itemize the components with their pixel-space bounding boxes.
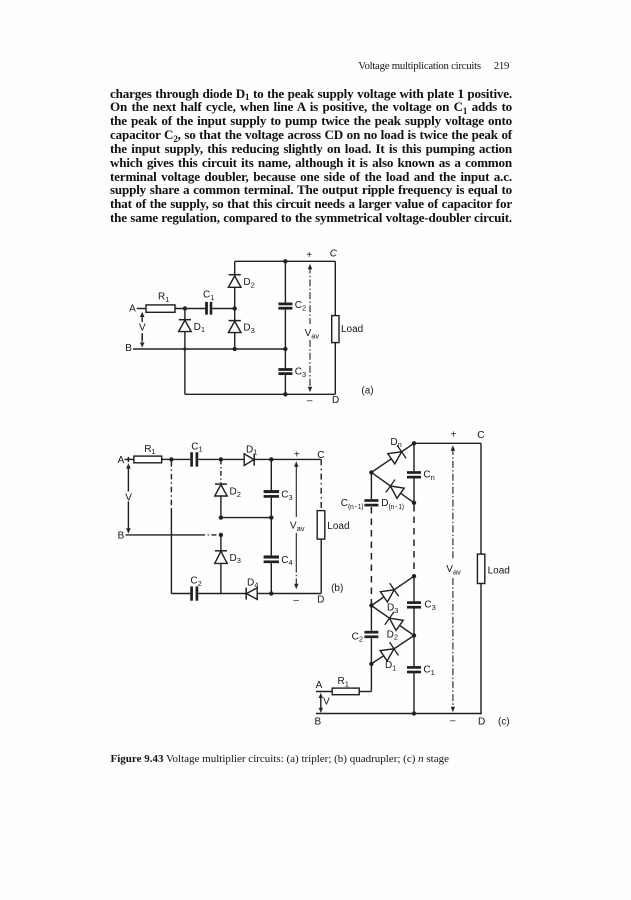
svg-text:–: – [307,395,313,406]
wire left column bottom (c) [370,664,372,692]
wire R1 to C1 (a) [175,308,205,310]
junction top rail / Cn column (c) [412,441,416,445]
svg-text:B: B [314,716,321,727]
wire D2 to top rail (a) [234,261,236,274]
svg-text:C1: C1 [203,290,214,302]
svg-text:D1: D1 [246,444,257,456]
junction top rail / C2 (a) [283,259,287,263]
svg-text:C4: C4 [281,555,292,567]
svg-text:C3: C3 [424,600,435,612]
svg-text:D2: D2 [243,277,254,289]
svg-text:Load: Load [341,324,363,335]
svg-text:Dn: Dn [390,437,401,449]
junction B/D1-branch (a) [183,347,186,350]
wire C3 branch upper (a) [284,349,286,368]
V source arrow (b) [127,457,129,462]
wire Cn column upper (c) [413,443,415,471]
wire D1 to node (b) [254,458,271,460]
wire left column dashed upper (b) [170,461,172,508]
wire load branch dashed upper (b) [320,459,322,510]
load resistor (c) [477,554,484,583]
capacitor C1 (c) [407,666,421,669]
svg-text:C: C [330,249,338,260]
svg-text:C: C [317,450,324,461]
diode D3 (b) [215,550,227,552]
svg-text:D3: D3 [387,603,398,615]
diode D2 (c) [371,606,414,636]
capacitor C4 (b) [264,555,279,558]
Vav arrow (b) [294,461,298,467]
capacitor C1 (b) [190,452,193,466]
svg-text:(c): (c) [498,716,510,727]
svg-text:Cn: Cn [423,470,434,482]
wire C3 to link node (b) [270,498,272,518]
wire right column dashed (c) [413,505,415,574]
svg-text:C: C [477,430,484,441]
node junction D4/C4 (b) [269,591,273,595]
junction D3/B (a) [233,347,237,351]
wire load branch lower (c) [480,584,482,714]
svg-text:Load: Load [488,566,510,577]
wire load branch lower (a) [334,343,336,395]
junction bottom rail / C1 (c) [412,711,416,715]
wire node to C1 (b) [171,458,190,460]
svg-text:V: V [323,696,330,707]
wire load branch lower (b) [320,539,322,593]
wire C2 column lower (c) [370,638,372,664]
diode D1 (b) [244,454,254,466]
wire C3 column upper (c) [413,576,415,601]
capacitor Cn-1 (c) [364,504,378,507]
node junction C1/D2/D3 (a) [233,306,237,310]
wire line B (a) [133,348,285,350]
svg-text:A: A [129,303,136,314]
svg-text:V: V [125,493,132,504]
svg-text:–: – [450,715,456,726]
Vav arrow (a) [308,264,312,270]
svg-text:C2: C2 [352,631,363,643]
wire C2 to line B (a) [284,309,286,349]
svg-text:D: D [317,594,324,605]
junction C2/B (a) [283,347,287,351]
wire C1 to node (b) [198,458,221,460]
wire D2 to node (b) [220,496,222,518]
svg-text:R1: R1 [158,292,169,304]
svg-text:V: V [139,322,146,333]
svg-text:C2: C2 [295,300,306,312]
capacitor C3 (a) [278,368,292,371]
svg-text:D3: D3 [230,553,241,565]
wire C1 to bottom rail (c) [413,673,415,713]
wire C1 column upper (c) [413,636,415,667]
wire D3 to bottom row (b) [220,563,222,593]
wire D1 branch upper (a) [184,309,186,320]
capacitor C1 (a) [205,302,208,315]
wire C3 to bottom rail (a) [284,375,286,395]
junction D1/C2/R1 (c) [369,662,373,666]
svg-text:+: + [294,449,300,460]
svg-text:(b): (b) [331,583,343,594]
svg-text:R1: R1 [338,676,349,688]
top rail (a) [235,260,336,262]
svg-text:C1: C1 [423,665,434,677]
wire C2 branch upper (a) [284,261,286,303]
svg-text:C1: C1 [191,441,202,453]
svg-text:+: + [450,430,456,441]
diode Dn (c) [371,443,414,472]
wire Cn to node (c) [413,478,415,502]
diode D4 (b) [245,588,247,600]
junction D3/right column (c) [412,574,416,578]
junction D1/D2/C1 (c) [412,633,416,637]
svg-text:C3: C3 [281,490,292,502]
wire load branch upper (c) [480,443,482,554]
svg-text:Load: Load [327,521,349,532]
wire A input (c) [316,691,332,693]
wire D4 to node (b) [257,593,271,595]
svg-text:(a): (a) [361,385,373,396]
wire load branch upper (a) [334,261,336,315]
top rail (c) [414,442,481,444]
svg-text:D3: D3 [243,323,254,335]
resistor R1 (c) [332,688,359,695]
junction link/C4 (b) [269,515,273,519]
svg-text:B: B [125,343,132,354]
junction Dn/Dn-1/Cn-1 (c) [369,470,373,474]
svg-text:–: – [293,595,299,606]
node junction R1/C1/C2-column (b) [169,457,173,461]
wire R1 to left column (c) [359,691,371,693]
load resistor (b) [317,511,325,539]
wire A input (a) [137,308,146,310]
label V (a) [138,322,146,332]
Vav arrow (c) [451,445,455,451]
wire D3 to line B (a) [234,333,236,349]
wire line B dashdot right (b) [200,534,221,536]
wire C4 to bottom row (b) [270,563,272,593]
wire bottom row mid (b) [198,593,246,595]
node junction C1/D1/D2 (b) [219,457,223,461]
svg-text:C2: C2 [190,576,201,588]
wire B to D3 (b) [220,535,222,551]
node junction R1/C1/D1 (a) [183,306,187,310]
junction D2/D3/C2 (c) [369,603,373,607]
wire R1 to node (b) [162,458,172,460]
svg-text:D: D [478,716,485,727]
svg-text:C3: C3 [295,367,306,379]
svg-text:D2: D2 [230,487,241,499]
svg-text:D(n - 1): D(n - 1) [381,498,403,511]
wire left column solid lower (b) [170,508,172,594]
V source arrow (c) [319,693,323,698]
diode D3 (a) [229,320,241,322]
wire link to C3/C4 column (b) [221,517,271,519]
wire node to D1 (b) [221,458,244,460]
wire C4 column upper (b) [270,518,272,556]
svg-text:B: B [118,531,125,542]
capacitor C2 (a) [278,302,292,305]
svg-text:D4: D4 [247,577,258,589]
resistor R1 (a) [146,305,175,312]
junction Dn-1/right column (c) [412,501,416,505]
wire node to C corner (b) [271,458,321,460]
load resistor (a) [332,316,339,343]
svg-text:Vav: Vav [446,564,461,577]
label V (b) [124,492,132,502]
wire A input (b) [125,458,134,460]
wire C1 to node2 (a) [212,308,234,310]
svg-text:R1: R1 [144,444,155,456]
diode Dn-1 (c) [371,472,414,502]
wire C3 column upper (b) [270,459,272,490]
diode D2 (b) [215,483,227,485]
bottom rail (c) [316,713,482,715]
svg-text:D1: D1 [385,660,396,672]
capacitor C3 (c) [407,601,421,604]
wire line B solid (b) [126,534,201,536]
wire D2 branch lower (a) [234,287,236,308]
resistor R1 (b) [134,456,162,463]
wire bottom row to D corner (b) [271,593,321,595]
diode D1 (a) [179,319,191,321]
wire D2 branch dashed stub (b) [220,459,222,483]
svg-text:D1: D1 [194,322,205,334]
node junction D2/D3 link (b) [219,515,223,519]
junction B/D3 (b) [219,533,223,537]
diode D3 (c) [371,576,414,605]
wire D3 branch upper (a) [234,309,236,321]
capacitor Cn (c) [407,471,421,474]
wire left column dashed (c) [370,506,372,605]
capacitor C2 (c) [364,635,378,638]
wire C2 to left node (c) [370,606,372,631]
svg-text:D: D [332,395,339,406]
wire D1 branch lower to bottom rail (a) [184,332,186,395]
node junction D1/C3 (b) [269,457,273,461]
wire bottom row left (b) [171,593,190,595]
svg-text:A: A [316,680,323,691]
svg-text:C(n - 1): C(n - 1) [341,498,363,511]
svg-text:Vav: Vav [305,328,320,341]
V source arrow (a) [140,312,145,317]
svg-text:D2: D2 [387,629,398,641]
svg-text:+: + [306,250,312,261]
diode D1 (c) [371,636,414,664]
svg-text:Vav: Vav [290,521,305,534]
capacitor C3 (b) [264,490,279,493]
capacitor C2 (b) [190,586,193,600]
junction bottom rail / C3 (a) [283,392,287,396]
diode D2 (a) [228,276,241,287]
wire Cn-1 to top-left node (c) [370,472,372,499]
svg-text:A: A [118,455,125,466]
bottom rail (a) [185,393,335,395]
wire C3 to node (c) [413,609,415,636]
